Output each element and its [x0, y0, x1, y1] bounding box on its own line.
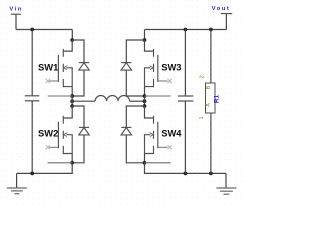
ground GND right — [216, 188, 236, 194]
junction SW1 drain — [70, 38, 74, 42]
wire SW3 source — [144, 87, 146, 96]
junction SW3 drain — [143, 38, 147, 42]
wire R1 bottom lead — [210, 113, 212, 173]
junction SW4 source node — [143, 161, 147, 165]
junction C1/ground rail — [30, 172, 34, 176]
wire Vout rail — [145, 29, 227, 31]
junction SW2 drain — [70, 104, 74, 108]
ground GND left — [7, 188, 27, 194]
wire SW4 source — [144, 154, 146, 163]
wire SW2 source — [71, 154, 73, 163]
svg-text:Vin: Vin — [9, 6, 22, 12]
wire Vin stem — [15, 14, 17, 29]
junction C2/ground rail — [184, 172, 188, 176]
capacitor C2 — [178, 96, 194, 101]
wire ground stem right — [225, 173, 227, 188]
wire SW3 drain drop — [144, 30, 146, 41]
diode D4 — [121, 106, 144, 163]
transistor SW4 — [145, 106, 168, 154]
svg-text:Vout: Vout — [212, 6, 230, 12]
port Vout — [221, 13, 233, 15]
wire ground stem left — [16, 173, 18, 188]
wire SW4 to ground rail — [145, 163, 227, 174]
junction Vout/R1 — [209, 28, 213, 32]
stub SW4 node — [145, 162, 171, 164]
port Vin — [11, 13, 21, 15]
transistor SW3 — [145, 40, 168, 87]
diode D2 — [72, 106, 89, 163]
no-connect SW3 gate — [168, 79, 172, 83]
junction switch node A1 — [70, 94, 74, 98]
capacitor C1 — [25, 96, 40, 101]
svg-text:SW1: SW1 — [38, 62, 58, 73]
svg-text:SW3: SW3 — [161, 62, 181, 73]
diode D3 — [121, 40, 144, 96]
no-connect SW4 gate — [168, 145, 172, 149]
wire C1 bottom lead — [31, 101, 33, 173]
wire C1 top lead — [31, 30, 33, 96]
transistor SW1 — [49, 40, 72, 87]
junction R1/ground rail — [209, 172, 213, 176]
junction inductor left — [70, 99, 74, 103]
wire SW1 source — [71, 87, 73, 96]
wire C2 bottom lead — [184, 101, 186, 173]
grid background — [0, 0, 246, 205]
no-connect SW2 gate — [46, 145, 50, 149]
inductor L1 — [72, 95, 144, 101]
wire node B vertical — [144, 96, 146, 106]
stub node B — [145, 95, 171, 97]
junction switch node B1 — [143, 94, 147, 98]
stub node A — [48, 95, 72, 97]
wire SW1 drain drop — [71, 30, 73, 41]
diode D1 — [72, 40, 89, 96]
no-connect SW1 gate — [46, 79, 50, 83]
svg-text:R1: R1 — [214, 94, 221, 103]
resistor R1 — [206, 83, 216, 113]
wire R1 top lead — [210, 30, 212, 84]
junction Vin/C1 — [30, 28, 34, 32]
svg-text:1: 1 — [199, 116, 205, 119]
wire C2 top lead — [184, 30, 186, 96]
svg-text:2: 2 — [199, 75, 205, 78]
junction SW4 drain — [143, 104, 147, 108]
junction SW2 source node — [70, 161, 74, 165]
transistor SW2 — [49, 106, 72, 154]
stub SW2 node — [48, 162, 73, 164]
junction inductor right — [143, 99, 147, 103]
svg-text:SW4: SW4 — [161, 127, 182, 138]
wire Vout stem — [225, 14, 227, 30]
svg-text:SW2: SW2 — [38, 127, 58, 138]
wire node A vertical — [71, 96, 73, 106]
wire Vin rail — [16, 29, 72, 31]
junction Vout/C2 — [184, 28, 188, 32]
wire SW2 to ground rail — [17, 163, 73, 174]
